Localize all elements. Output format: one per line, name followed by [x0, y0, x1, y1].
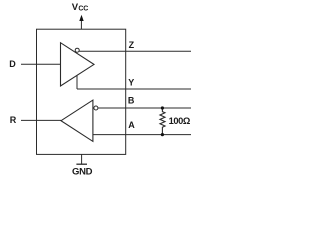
VCC supply arrow [79, 15, 83, 30]
junction dot on B line [161, 106, 164, 109]
svg-text:R: R [10, 115, 17, 125]
wire D input [21, 63, 61, 65]
ground symbol [76, 154, 87, 164]
svg-text:100Ω: 100Ω [169, 116, 191, 126]
wire B (inverting receiver input) [98, 107, 191, 109]
resistor R1 100 ohm termination (zigzag) [160, 108, 165, 135]
svg-text:CC: CC [78, 5, 88, 12]
wire R output [21, 119, 61, 121]
svg-text:A: A [128, 120, 135, 130]
wire A (non-inverting receiver input) [93, 134, 191, 136]
svg-text:Y: Y [128, 77, 134, 87]
driver buffer (triangle) [61, 43, 95, 86]
wire Z (inverting driver output) [79, 50, 191, 52]
VCC label [72, 2, 88, 13]
svg-text:D: D [9, 59, 16, 69]
driver inverting bubble (Z output) [75, 48, 79, 52]
wire Y (non-inverting driver output) [77, 88, 191, 90]
svg-text:GND: GND [72, 166, 93, 177]
IC outline box [37, 29, 126, 154]
junction dot on A line [161, 133, 164, 136]
receiver buffer (triangle) [61, 100, 93, 141]
wire Y tap (vertical from driver bottom edge) [76, 75, 78, 89]
svg-text:Z: Z [129, 40, 135, 50]
svg-text:B: B [128, 96, 135, 106]
receiver inverting bubble (B input) [94, 106, 98, 110]
